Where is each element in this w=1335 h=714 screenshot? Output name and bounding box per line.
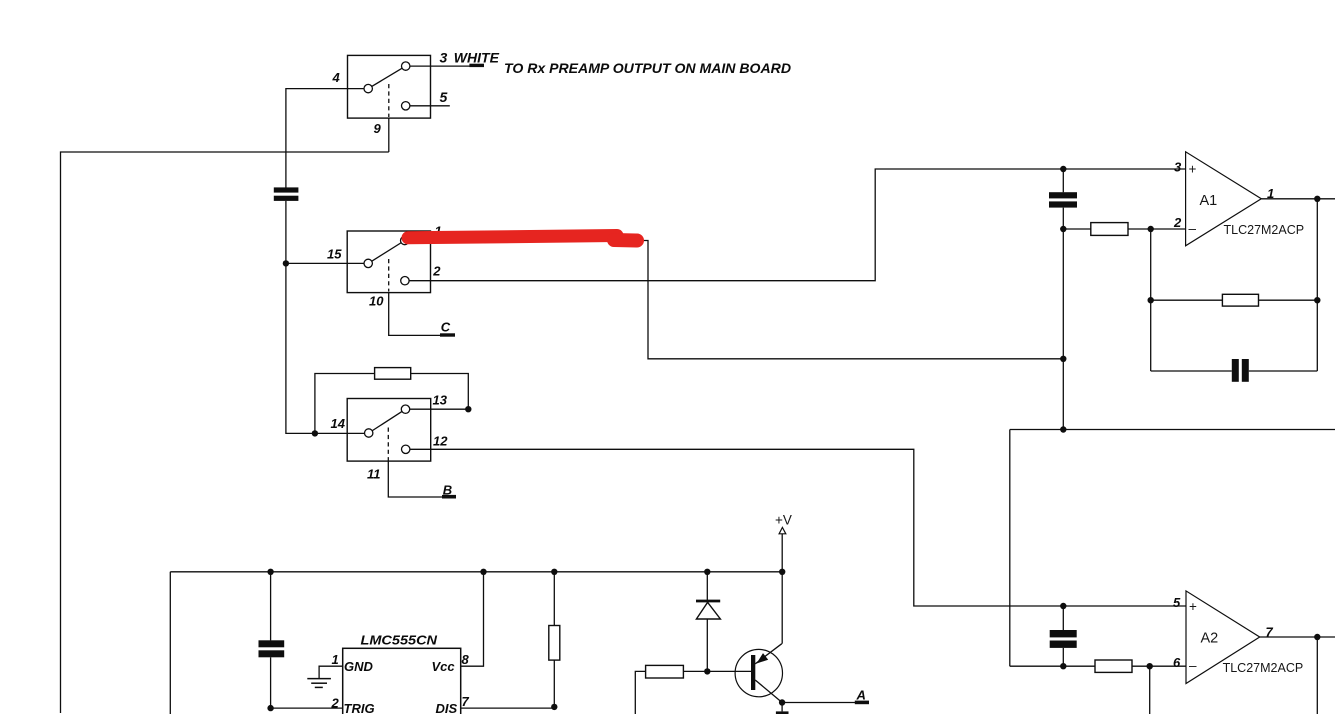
- svg-text:5: 5: [1173, 595, 1181, 610]
- svg-text:7: 7: [462, 694, 470, 709]
- wire resistor to pin13 node: [411, 374, 469, 410]
- wire discharge resistor branch top: [553, 572, 555, 626]
- svg-text:8: 8: [462, 652, 470, 667]
- node dot A2 cap bottom: [1060, 663, 1066, 669]
- wire pin4 of S1 to left vertical: [286, 89, 364, 188]
- capacitor series in left branch: [274, 187, 299, 201]
- svg-text:WHITE: WHITE: [454, 50, 500, 66]
- svg-text:3: 3: [440, 50, 448, 66]
- wire diode branch top: [706, 572, 708, 602]
- node dot rail-Vcc: [480, 569, 486, 575]
- wire Vcc pin8 stub: [461, 572, 484, 666]
- switch S3 pin12 contact: [402, 445, 410, 453]
- node dot S3 resistor left: [312, 430, 318, 436]
- svg-text:GND: GND: [344, 659, 374, 674]
- svg-text:TLC27M2ACP: TLC27M2ACP: [1224, 223, 1305, 237]
- resistor base: [646, 665, 684, 678]
- svg-text:+: +: [1189, 599, 1197, 614]
- wire base resistor to transistor base: [683, 670, 751, 672]
- node dot rail +V: [779, 569, 785, 575]
- svg-text:12: 12: [433, 434, 448, 449]
- switch S3 dashed throw: [387, 428, 389, 461]
- wire left branch below capacitor down to S3 common: [286, 201, 365, 434]
- wire S3 feedback resistor branch: [315, 374, 375, 434]
- wire rail to transistor emitter: [781, 572, 783, 644]
- svg-text:10: 10: [369, 294, 384, 309]
- node dot cap-TRIG: [267, 705, 273, 711]
- svg-text:C: C: [441, 320, 451, 335]
- node C tick: [440, 333, 455, 336]
- svg-text:9: 9: [374, 121, 382, 136]
- svg-text:TLC27M2ACP: TLC27M2ACP: [1223, 661, 1304, 675]
- svg-text:5: 5: [440, 89, 448, 105]
- svg-text:2: 2: [331, 696, 340, 711]
- wire DIS pin7 stub: [461, 707, 555, 709]
- switch S1 lever: [368, 66, 406, 89]
- wire +V to rail: [781, 534, 783, 572]
- svg-text:6: 6: [1173, 655, 1181, 670]
- node dot bus meets inter-stage: [1060, 426, 1066, 432]
- svg-text:+V: +V: [775, 512, 792, 527]
- switch S2 pin2 contact: [401, 277, 409, 285]
- svg-text:A2: A2: [1201, 631, 1219, 647]
- switch S2 dashed throw: [388, 259, 390, 292]
- node dot rail-resistor: [551, 569, 557, 575]
- op-amp A2 triangle: [1186, 591, 1260, 684]
- wire A2 minus node drop: [1149, 666, 1151, 714]
- wire A2 input cap stub top: [1062, 606, 1064, 630]
- node dot A2 output: [1314, 634, 1320, 640]
- svg-text:4: 4: [332, 70, 341, 85]
- node dot A1 output: [1314, 196, 1320, 202]
- switch S3 body: [347, 399, 431, 462]
- svg-text:3: 3: [1174, 159, 1182, 174]
- node A tick: [855, 701, 869, 705]
- wire pin3 lead: [410, 65, 483, 67]
- svg-text:LMC555CN: LMC555CN: [361, 633, 438, 648]
- node dot A1 minus input: [1148, 226, 1154, 232]
- transistor Q1 emitter arrow (PNP): [757, 653, 769, 663]
- node dot diode-base: [704, 668, 710, 674]
- op-amp A1 triangle: [1186, 152, 1262, 246]
- wire S2 pin2 to A1 plus input: [409, 169, 1186, 281]
- node dot A1 feedback res left: [1148, 297, 1154, 303]
- wire A2 output drop: [1316, 637, 1318, 714]
- resistor above S3: [375, 368, 411, 380]
- capacitor A1 feedback: [1232, 359, 1249, 382]
- wire A1 feedback resistor row: [1151, 299, 1318, 301]
- wire A2 minus input row: [1010, 665, 1186, 667]
- svg-text:+: +: [1189, 161, 1197, 176]
- wire pin13 lead: [410, 408, 469, 410]
- wire pin5 lead: [410, 105, 450, 107]
- wire S3 pin11 to node B: [388, 461, 443, 497]
- capacitor A1 input: [1049, 192, 1077, 207]
- wire discharge resistor branch bottom: [553, 660, 555, 708]
- red marker stroke over pin1 wire: [408, 236, 637, 241]
- wire A1 feedback cap row left: [1151, 370, 1232, 372]
- node dot A1 plus input: [1060, 166, 1066, 172]
- wire A1 vertical bus below cap: [1062, 208, 1064, 430]
- switch S3 pin14 contact: [365, 429, 373, 437]
- wire inter-stage left vertical: [1009, 430, 1011, 667]
- svg-text:A: A: [856, 688, 866, 703]
- resistor discharge (vertical): [549, 626, 560, 661]
- svg-text:TO Rx PREAMP OUTPUT ON MAIN BO: TO Rx PREAMP OUTPUT ON MAIN BOARD: [504, 60, 791, 76]
- switch S3 pin13 contact: [401, 405, 409, 413]
- transistor Q1 base bar: [751, 655, 755, 690]
- ground symbol: [307, 679, 331, 688]
- wire inter-stage horizontal: [1010, 429, 1335, 431]
- wire A2 output: [1260, 636, 1335, 638]
- svg-text:14: 14: [331, 416, 346, 431]
- switch S1 body: [348, 55, 431, 118]
- switch S1 pin3 contact: [402, 62, 410, 70]
- svg-text:15: 15: [327, 246, 342, 261]
- resistor A2 input: [1095, 660, 1132, 672]
- svg-text:1: 1: [1267, 186, 1274, 201]
- svg-text:1: 1: [332, 652, 339, 667]
- node dot rail-cap: [267, 569, 273, 575]
- node dot A1 feedback res right: [1314, 297, 1320, 303]
- wire S2 pin10 to node C: [389, 293, 441, 336]
- node dot S2pin1 wire joins bus: [1060, 356, 1066, 362]
- wire A1 feedback left vertical: [1150, 229, 1152, 371]
- wire base resistor left drop: [635, 671, 645, 714]
- wire A1 feedback right vertical: [1316, 199, 1318, 371]
- switch S1 pin4 contact: [364, 84, 372, 92]
- switch S2 pin1 contact: [401, 236, 409, 244]
- white-wire tick under WHITE label: [469, 64, 484, 67]
- wire S2 pin1 to A1 block: [409, 241, 1063, 359]
- transistor Q1 emitter lead: [755, 644, 782, 664]
- svg-text:–: –: [1189, 221, 1197, 236]
- capacitor A2 input: [1050, 630, 1077, 648]
- svg-text:Vcc: Vcc: [432, 659, 456, 674]
- switch S2 body: [347, 231, 430, 293]
- wire collector down to cut capacitor: [781, 703, 783, 712]
- wire TRIG pin2 stub: [271, 707, 343, 709]
- node dot S2 pin15 tap: [283, 260, 289, 266]
- diode cathode bar: [696, 600, 720, 603]
- wire collector node A lead: [782, 702, 856, 704]
- svg-text:13: 13: [433, 393, 448, 408]
- node dot A2 plus input: [1060, 603, 1066, 609]
- switch S2 lever: [368, 241, 405, 264]
- switch S1 dashed throw: [388, 84, 390, 117]
- svg-text:TRIG: TRIG: [344, 701, 375, 714]
- wire diode branch bottom: [706, 619, 708, 671]
- capacitor timing: [259, 640, 285, 657]
- wire GND pin1 stub: [319, 666, 343, 678]
- node dot A1 cap-resistor: [1060, 226, 1066, 232]
- svg-text:11: 11: [367, 467, 381, 482]
- resistor A1 feedback: [1222, 294, 1258, 306]
- wire S3 pin12 to A2 plus input: [410, 449, 1186, 606]
- wire A1 output: [1261, 198, 1335, 200]
- switch S2 pin15 contact: [364, 259, 372, 267]
- node dot S3 pin13: [465, 406, 471, 412]
- capacitor plate (cut by image bottom): [776, 711, 789, 714]
- svg-text:B: B: [443, 482, 452, 497]
- switch S3 lever: [369, 409, 406, 433]
- IC LMC555CN body: [343, 648, 461, 714]
- node dot A2 minus input: [1147, 663, 1153, 669]
- wire A1 minus input: [1063, 228, 1185, 230]
- supply +V arrow: [779, 527, 786, 533]
- svg-text:DIS: DIS: [436, 701, 458, 714]
- node dot collector A: [779, 699, 785, 705]
- transistor Q1 collector lead: [755, 680, 782, 703]
- wire timing cap branch bottom: [270, 657, 272, 708]
- wire timing cap branch top: [270, 572, 272, 641]
- resistor A1 input: [1091, 223, 1128, 236]
- wire A1 feedback cap row right: [1249, 370, 1318, 372]
- wire supply rail: [170, 571, 782, 573]
- wire tap to S2 pin15: [286, 262, 364, 264]
- svg-text:2: 2: [1173, 215, 1182, 230]
- svg-text:7: 7: [1266, 625, 1274, 640]
- diode triangle: [696, 602, 720, 619]
- svg-text:2: 2: [432, 264, 441, 279]
- transistor Q1 body circle: [735, 649, 782, 696]
- node B tick: [442, 495, 456, 499]
- wire pin9 drop from switch S1: [388, 118, 390, 152]
- svg-text:–: –: [1189, 658, 1197, 673]
- wire left vertical bus: [61, 152, 389, 713]
- node dot resistor-DIS: [551, 704, 557, 710]
- wire A1 input cap stub top: [1062, 169, 1064, 192]
- svg-text:A1: A1: [1200, 193, 1218, 209]
- switch S1 pin5 contact: [402, 102, 410, 110]
- node dot rail-diode: [704, 569, 710, 575]
- wire A2 input cap stub bottom: [1062, 648, 1064, 666]
- wire rail left drop: [169, 572, 171, 714]
